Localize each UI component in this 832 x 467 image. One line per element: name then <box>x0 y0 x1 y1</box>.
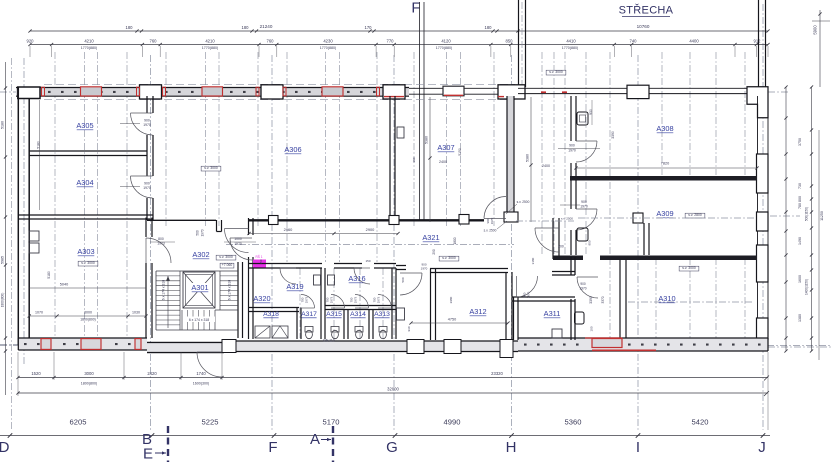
wall A305/A306 divider <box>146 96 148 113</box>
staircase A301 <box>156 270 238 272</box>
svg-text:760: 760 <box>150 39 158 44</box>
svg-text:A318: A318 <box>263 311 279 318</box>
column block corridor x459 <box>459 215 469 225</box>
svg-text:1600: 1600 <box>798 275 802 283</box>
grid axis G <box>393 55 395 430</box>
door room x400 <box>400 273 422 295</box>
wall A304/A303 divider <box>18 214 153 216</box>
thin facade wall bay G-H <box>409 87 498 89</box>
dim 7820 A309 <box>576 167 757 169</box>
svg-text:4210: 4210 <box>205 39 215 44</box>
top exterior wall band <box>16 88 409 97</box>
top wall insulation dashes <box>48 91 51 93</box>
svg-text:5040: 5040 <box>60 283 68 287</box>
door A304 <box>131 176 153 198</box>
door A320 <box>230 238 252 260</box>
svg-text:s.v. 2500: s.v. 2500 <box>484 229 497 233</box>
svg-text:s.v. 3000: s.v. 3000 <box>442 256 456 260</box>
svg-text:900: 900 <box>144 182 150 186</box>
svg-text:A301: A301 <box>191 283 208 292</box>
ev box A306 <box>201 166 221 171</box>
svg-text:290: 290 <box>432 249 436 255</box>
wall x506 (A312 right) <box>505 272 507 340</box>
svg-text:A312: A312 <box>469 307 486 316</box>
plinth block x407 <box>407 340 424 354</box>
horizontal dash-dot mid A309 <box>770 215 800 217</box>
top chain extension lines <box>29 46 31 57</box>
svg-text:850: 850 <box>506 39 514 44</box>
bottom dimension row 2 <box>18 392 768 394</box>
svg-text:100: 100 <box>590 326 594 331</box>
facade windows (red) on top wall <box>81 87 102 96</box>
dim 4750 A312 <box>411 322 508 324</box>
wall at axis H (hatched) <box>507 96 514 212</box>
svg-text:RŠ 1: RŠ 1 <box>255 254 262 259</box>
svg-text:3750: 3750 <box>798 138 802 146</box>
sink A309b <box>577 228 588 241</box>
svg-text:170: 170 <box>365 25 373 30</box>
svg-text:730: 730 <box>798 183 802 189</box>
svg-text:I: I <box>636 439 640 456</box>
wall A313 right <box>391 268 393 339</box>
wall A303 right <box>145 218 147 238</box>
fixture right wall A307 <box>397 127 404 138</box>
bottom dimension row 1 <box>18 377 768 379</box>
wall stub above J corner <box>758 0 760 87</box>
svg-text:5420: 5420 <box>692 418 709 427</box>
svg-text:A311: A311 <box>544 309 561 318</box>
svg-text:1770(880): 1770(880) <box>320 46 336 50</box>
svg-text:1740: 1740 <box>196 371 206 376</box>
svg-text:s.v. 3000: s.v. 3000 <box>204 166 218 170</box>
facade pier at axis G <box>383 85 405 99</box>
bottom wall segment D (right) <box>518 338 768 351</box>
red sill A310 entry <box>585 337 622 339</box>
svg-text:800: 800 <box>158 237 164 241</box>
door A308 <box>576 141 597 162</box>
wall A319/A316 divider <box>320 268 322 339</box>
door A302 from corridor <box>225 229 249 253</box>
svg-text:1000: 1000 <box>234 237 242 241</box>
svg-text:1800(800): 1800(800) <box>80 318 95 322</box>
ev box A302 <box>216 255 236 260</box>
wall A311 right <box>570 299 572 340</box>
wall segment x553 lobby <box>552 218 554 259</box>
ev box A310 <box>679 266 699 271</box>
wall A302 right (A320 left) <box>248 218 250 235</box>
svg-text:1970: 1970 <box>490 217 494 224</box>
svg-text:5985: 5985 <box>1 256 5 264</box>
svg-text:5380: 5380 <box>526 154 530 162</box>
svg-text:1600(300): 1600(300) <box>193 382 209 386</box>
grid axis H <box>511 55 513 430</box>
svg-text:6 x 174 x 318: 6 x 174 x 318 <box>162 280 166 300</box>
svg-text:3390: 3390 <box>611 131 615 139</box>
plinth block x444 <box>444 340 461 354</box>
svg-text:1970: 1970 <box>201 229 205 236</box>
sink A308 <box>577 112 588 125</box>
svg-text:200: 200 <box>558 245 564 249</box>
door exterior at stairs <box>197 352 222 377</box>
wall A308 left <box>570 96 572 141</box>
door lobby H <box>535 228 559 252</box>
svg-text:4400: 4400 <box>689 39 699 44</box>
svg-text:900: 900 <box>588 240 592 245</box>
right exterior wall <box>757 96 759 339</box>
door A309 <box>576 209 597 230</box>
svg-text:1770(880): 1770(880) <box>562 46 578 50</box>
door A316 <box>354 268 370 284</box>
svg-text:+7.060: +7.060 <box>222 263 233 267</box>
column A309 <box>633 213 643 223</box>
wall below A316 <box>325 305 396 307</box>
svg-text:740: 740 <box>630 39 638 44</box>
svg-text:1973: 1973 <box>305 296 309 303</box>
lobby centreline <box>516 220 574 222</box>
plinth block x222 <box>222 340 236 353</box>
svg-text:900: 900 <box>569 144 575 148</box>
svg-text:A305: A305 <box>76 121 93 130</box>
svg-text:3370: 3370 <box>601 296 605 303</box>
corner pier top-left <box>18 87 40 99</box>
svg-text:1970: 1970 <box>421 267 428 271</box>
svg-text:4410: 4410 <box>566 39 576 44</box>
red window bottom wall right <box>592 339 622 348</box>
horizontal dash-dot through bottom wall <box>0 344 20 346</box>
red marks on roof wall <box>541 91 546 93</box>
svg-text:5380: 5380 <box>425 136 429 144</box>
door A314 <box>355 295 369 309</box>
wall A305/A304 divider <box>29 150 147 152</box>
A310 centreline dash-dot <box>628 301 754 303</box>
svg-text:1970: 1970 <box>580 205 588 209</box>
sink A316 <box>328 275 335 285</box>
svg-text:900: 900 <box>581 200 587 204</box>
svg-text:1973: 1973 <box>354 296 358 303</box>
svg-text:A314: A314 <box>350 311 366 318</box>
wall A309 left <box>570 180 572 209</box>
axis arrow A <box>321 439 331 441</box>
wall A306 right (A307 left) <box>389 96 391 219</box>
door A311 lobby <box>517 276 538 297</box>
svg-text:A306: A306 <box>284 145 301 154</box>
grid axis J <box>762 4 764 430</box>
left exterior wall <box>17 87 19 345</box>
svg-text:E: E <box>143 446 153 463</box>
svg-text:2400: 2400 <box>439 160 447 164</box>
svg-text:1030: 1030 <box>132 311 140 315</box>
svg-text:6205: 6205 <box>70 418 87 427</box>
svg-text:1520: 1520 <box>31 371 41 376</box>
axis mark E (bold dashed) <box>167 426 169 462</box>
wall A311 left <box>513 297 515 340</box>
svg-text:1400(1150): 1400(1150) <box>805 279 809 295</box>
bottom wall segment A (under A303) <box>18 338 147 350</box>
wall x430 (A312 left) <box>430 269 432 341</box>
svg-text:s.v. 2500: s.v. 2500 <box>561 217 573 221</box>
bottom extension verticals <box>17 352 19 396</box>
grid axis F <box>271 55 273 430</box>
A309 centreline dash-dot <box>578 217 754 219</box>
svg-text:5900: 5900 <box>813 25 818 35</box>
top dimension chain row 1 <box>30 30 768 32</box>
corridor top wall (A306/A307 bottom) <box>147 219 216 221</box>
wall A310 left <box>619 260 621 339</box>
wall A311 top <box>512 296 575 298</box>
roof pier at axis I <box>627 85 649 98</box>
svg-text:A307: A307 <box>437 143 454 152</box>
svg-text:s.v. 3000: s.v. 3000 <box>549 70 563 74</box>
wall A315/A314 divider <box>343 310 345 340</box>
svg-text:500: 500 <box>401 277 405 282</box>
wall A318/A317 divider <box>296 308 298 340</box>
svg-text:21240: 21240 <box>260 24 273 29</box>
svg-text:s.v. 2800: s.v. 2800 <box>688 213 702 217</box>
svg-text:900: 900 <box>580 282 586 286</box>
svg-text:A302: A302 <box>192 250 209 259</box>
svg-text:D: D <box>0 439 10 456</box>
wall stub below F <box>419 2 421 220</box>
svg-text:3000: 3000 <box>84 371 94 376</box>
svg-text:1800(800): 1800(800) <box>1 293 5 308</box>
svg-text:6 x 174 x 318: 6 x 174 x 318 <box>189 318 209 322</box>
right dim chain inner <box>785 87 787 351</box>
svg-text:DN 110: DN 110 <box>323 339 334 343</box>
svg-text:2900: 2900 <box>366 227 375 232</box>
svg-text:32000: 32000 <box>387 387 399 392</box>
svg-text:A319: A319 <box>286 282 303 291</box>
svg-text:1770(880): 1770(880) <box>202 46 218 50</box>
svg-text:2400: 2400 <box>542 164 550 168</box>
svg-text:7820: 7820 <box>661 162 669 166</box>
svg-text:500: 500 <box>196 230 200 236</box>
svg-text:10760: 10760 <box>637 24 650 29</box>
svg-text:3180: 3180 <box>531 257 535 264</box>
corner pier top-right <box>747 87 768 118</box>
door A317 <box>301 295 315 309</box>
svg-text:A317: A317 <box>301 311 317 318</box>
bottom axis line with dims <box>0 435 770 437</box>
wall stub above H section <box>518 0 520 87</box>
bottom wall segment B (stairwell) <box>147 342 224 344</box>
svg-text:920: 920 <box>27 39 35 44</box>
WC toilets <box>305 327 313 333</box>
door A315 <box>331 295 345 309</box>
room label A301 <box>188 283 212 292</box>
bottom wall axis dash-dot <box>0 345 832 347</box>
svg-text:930: 930 <box>407 326 411 331</box>
svg-text:760: 760 <box>267 39 275 44</box>
svg-text:1973: 1973 <box>330 296 334 303</box>
svg-text:11250: 11250 <box>820 211 824 221</box>
door corridor-A306 <box>484 197 506 219</box>
svg-text:6 x 174 x 318: 6 x 174 x 318 <box>228 280 232 300</box>
svg-text:A321: A321 <box>422 233 439 242</box>
svg-text:4750: 4750 <box>448 318 456 322</box>
svg-text:5360: 5360 <box>565 418 582 427</box>
facade pier at axis B <box>140 85 162 99</box>
svg-text:2420: 2420 <box>147 371 157 376</box>
svg-text:F: F <box>268 439 277 456</box>
svg-text:s.v. 3000: s.v. 3000 <box>81 261 95 265</box>
svg-text:160: 160 <box>412 157 416 162</box>
svg-text:2980: 2980 <box>449 296 453 303</box>
svg-text:s.v. 3000: s.v. 3000 <box>219 255 233 259</box>
svg-text:770: 770 <box>387 39 395 44</box>
wall A308/A309 divider <box>570 176 757 181</box>
right top dim 5900 <box>819 10 821 87</box>
svg-text:5180: 5180 <box>47 271 51 279</box>
svg-text:1970: 1970 <box>568 149 576 153</box>
column block corridor x389 <box>389 216 399 225</box>
svg-text:900: 900 <box>144 119 150 123</box>
red sill marks under G pier <box>384 96 404 98</box>
svg-text:5180: 5180 <box>1 121 5 129</box>
door A310 entry <box>577 277 598 298</box>
svg-text:1770(880): 1770(880) <box>81 46 97 50</box>
svg-text:150: 150 <box>365 259 370 263</box>
svg-text:1970: 1970 <box>143 186 151 190</box>
window frame in bay G-H <box>443 86 464 96</box>
right wall pier y318 <box>757 318 769 339</box>
door A305 <box>131 113 153 135</box>
svg-text:4230: 4230 <box>323 39 333 44</box>
wall cupboard left A303 <box>29 231 39 241</box>
svg-text:A: A <box>310 431 320 448</box>
svg-text:A316: A316 <box>348 274 365 283</box>
corridor centreline dash-dot <box>226 244 514 246</box>
svg-text:A310: A310 <box>658 294 675 303</box>
svg-text:A313: A313 <box>374 311 390 318</box>
svg-text:1970: 1970 <box>527 291 531 298</box>
right wall pier y212 <box>757 212 769 231</box>
sewer shaft RS1 (magenta) <box>253 260 266 268</box>
svg-text:1800: 1800 <box>453 237 457 244</box>
wall x571 below divider <box>570 257 572 275</box>
wall A308 interior x644 <box>643 223 645 255</box>
svg-text:1970: 1970 <box>234 242 242 246</box>
svg-text:180: 180 <box>126 25 134 30</box>
svg-text:3390: 3390 <box>589 296 593 304</box>
grid axis D <box>23 58 25 365</box>
top dimension chain row 2 <box>30 44 768 46</box>
svg-text:5180: 5180 <box>37 141 41 149</box>
bottom wall segment C (under WCs) <box>224 341 518 352</box>
red windows bottom wall left <box>41 339 51 350</box>
bottom wall insulation dashes <box>24 343 27 345</box>
svg-text:780: 780 <box>798 203 802 209</box>
svg-text:5225: 5225 <box>202 418 219 427</box>
door A303 <box>146 238 171 263</box>
dim 5040 A303 <box>29 287 146 289</box>
svg-text:1770(880): 1770(880) <box>436 46 452 50</box>
svg-text:s.v. 3000: s.v. 3000 <box>682 266 696 270</box>
facade pier at axis H <box>498 85 525 99</box>
plinth block x500 <box>500 340 513 358</box>
corridor dim line <box>249 233 398 235</box>
fixture west room <box>397 308 405 320</box>
svg-text:1970: 1970 <box>579 287 586 291</box>
axis arrow E <box>155 452 166 454</box>
svg-text:5170: 5170 <box>323 418 340 427</box>
red window jambs <box>42 87 45 96</box>
grid axis B <box>150 55 152 430</box>
shower A318 <box>255 326 270 338</box>
lobby bottom wall <box>552 271 575 273</box>
roof wall (STRECHA section) <box>518 87 768 89</box>
svg-text:912: 912 <box>754 39 762 44</box>
svg-text:1070: 1070 <box>35 311 43 315</box>
svg-text:4120: 4120 <box>441 39 451 44</box>
svg-text:23320: 23320 <box>491 371 503 376</box>
wall A314/A313 divider <box>368 310 370 340</box>
axis mark A (bold dashed) <box>332 426 334 462</box>
door A319 <box>280 268 296 284</box>
svg-text:930: 930 <box>589 109 593 115</box>
svg-text:2960: 2960 <box>284 227 293 232</box>
wall A309/A310 divider <box>553 256 583 261</box>
grid axis I <box>637 55 639 430</box>
right chain verticals <box>818 130 820 360</box>
sink at A310 entry <box>575 312 585 324</box>
grid axis left margin <box>11 58 13 430</box>
svg-text:H: H <box>506 439 517 456</box>
svg-text:A308: A308 <box>656 124 673 133</box>
svg-text:5150: 5150 <box>458 148 462 156</box>
svg-text:180: 180 <box>485 25 493 30</box>
corridor south wall right part <box>396 265 406 267</box>
right dim chain outer <box>811 87 813 351</box>
right wall pier y245 <box>757 245 769 282</box>
svg-text:A315: A315 <box>326 311 342 318</box>
door A313 <box>378 295 392 309</box>
svg-text:4210: 4210 <box>84 39 94 44</box>
svg-text:A309: A309 <box>656 209 673 218</box>
svg-text:STŘECHA: STŘECHA <box>619 4 674 17</box>
svg-text:150: 150 <box>259 259 263 264</box>
corridor south wall <box>248 263 322 265</box>
stairwell right wall <box>237 262 239 338</box>
svg-text:A304: A304 <box>76 178 93 187</box>
svg-text:A320: A320 <box>253 294 270 303</box>
ev box corridor <box>439 256 459 261</box>
facade pier at axis F <box>261 85 283 99</box>
wall below A319 <box>249 307 300 309</box>
svg-text:1800(800): 1800(800) <box>81 382 97 386</box>
left dim chain <box>5 62 7 395</box>
ev box right top <box>546 70 566 75</box>
window axis grid lines <box>54 52 56 338</box>
column block corridor x269 <box>269 216 279 225</box>
horizontal dash-dot through top wall <box>0 91 17 93</box>
dim line A303 <box>29 315 146 317</box>
dim chain x430 in A307 <box>429 97 431 222</box>
sink A319 <box>314 275 321 285</box>
fixture A311 <box>552 329 562 338</box>
dim chain x531 in A308 <box>530 97 532 222</box>
svg-text:4990: 4990 <box>444 418 461 427</box>
svg-text:500(1150): 500(1150) <box>805 207 809 221</box>
svg-text:1490: 1490 <box>798 237 802 245</box>
svg-text:180: 180 <box>242 25 250 30</box>
eaves dashed lines <box>44 83 515 85</box>
svg-text:3000: 3000 <box>84 311 92 315</box>
svg-text:1380: 1380 <box>798 314 802 322</box>
svg-text:800: 800 <box>798 196 802 202</box>
svg-text:J: J <box>758 439 766 456</box>
right wall pier y154 <box>757 154 769 193</box>
ev box A303 <box>78 261 98 266</box>
